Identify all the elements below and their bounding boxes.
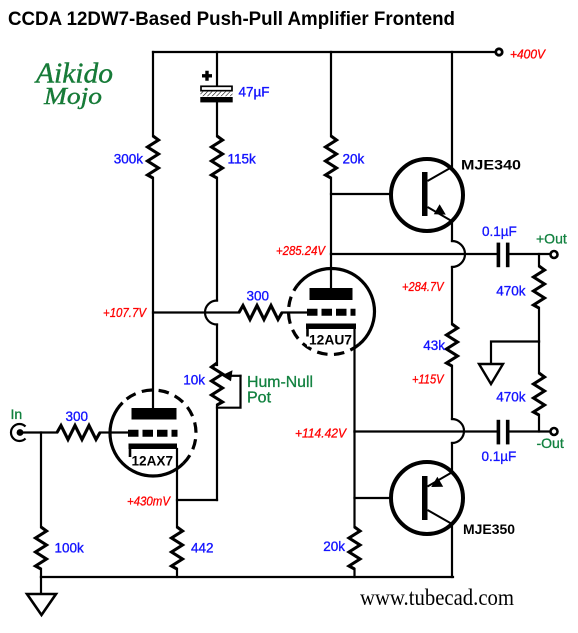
svg-text:10k: 10k bbox=[183, 373, 205, 388]
label +114.42V bbox=[295, 426, 347, 441]
ground symbol bottom left bbox=[27, 577, 56, 615]
label 300k bbox=[114, 152, 144, 167]
svg-text:+400V: +400V bbox=[510, 47, 546, 62]
wire wiper loop to pot bottom bbox=[217, 376, 241, 408]
label 115k bbox=[228, 152, 257, 167]
svg-text:+284.7V: +284.7V bbox=[402, 279, 445, 294]
label 300 bbox=[247, 289, 270, 304]
wire cap to -Out bbox=[510, 430, 551, 432]
svg-text:Pot: Pot bbox=[247, 390, 272, 407]
tube 12AU7 bbox=[289, 269, 375, 355]
svg-text:-Out: -Out bbox=[537, 435, 564, 451]
wire grid resistor to 12AU7 grid bbox=[282, 311, 307, 313]
wire 43k down to hop bbox=[451, 366, 453, 419]
resistor R 470k upper bbox=[534, 266, 545, 308]
svg-text:20k: 20k bbox=[343, 152, 365, 167]
wire +430mV node bbox=[177, 499, 217, 501]
wire 470k upper to ground node bbox=[538, 308, 540, 342]
wire pot to cathode node bbox=[216, 405, 218, 500]
svg-text:Hum-Null: Hum-Null bbox=[247, 374, 313, 391]
Aikido Mojo logo text bbox=[34, 59, 113, 111]
wire node +285.24V to coupling cap bbox=[331, 253, 497, 255]
svg-text:+Out: +Out bbox=[536, 231, 567, 247]
wire 12AX7 grid lead bbox=[111, 431, 129, 433]
svg-text:0.1µF: 0.1µF bbox=[482, 449, 517, 464]
label Hum-Null Pot bbox=[247, 374, 313, 407]
wire In to grid resistor bbox=[22, 431, 57, 433]
resistor R 43k bbox=[447, 324, 458, 366]
svg-text:www.tubecad.com: www.tubecad.com bbox=[360, 585, 514, 610]
svg-text:442: 442 bbox=[191, 541, 214, 556]
wire node +107.7V to grid resistor bbox=[153, 311, 239, 313]
label www.tubecad.com bbox=[360, 585, 514, 610]
svg-text:+115V: +115V bbox=[412, 372, 445, 387]
wire 12AU7 plate lead bbox=[330, 254, 332, 288]
label +107.7V bbox=[103, 305, 147, 320]
svg-text:115k: 115k bbox=[228, 152, 257, 167]
wire In drop to 100k bbox=[40, 433, 42, 528]
svg-text:CCDA 12DW7-Based Push-Pull Amp: CCDA 12DW7-Based Push-Pull Amplifier Fro… bbox=[8, 8, 455, 30]
potentiometer R 10k bbox=[212, 363, 223, 405]
capacitor C 47uF polarized bbox=[200, 71, 232, 103]
resistor R 20k upper bbox=[326, 136, 337, 178]
svg-text:470k: 470k bbox=[496, 390, 526, 405]
capacitor C 0.1uF upper bbox=[497, 243, 510, 268]
wire 12AX7 cathode lead bbox=[176, 449, 178, 527]
terminal In jack bbox=[11, 424, 26, 441]
label +115V bbox=[412, 372, 445, 387]
svg-text:300: 300 bbox=[66, 409, 89, 424]
wire rail to 47uF bbox=[216, 52, 218, 85]
wire 470k lower to -Out node bbox=[538, 415, 540, 432]
label 0.1uF lower bbox=[482, 449, 517, 464]
wire ground node to 470k lower bbox=[538, 342, 540, 374]
label 47uF bbox=[239, 85, 270, 100]
svg-text:20k: 20k bbox=[323, 539, 345, 554]
svg-text:300k: 300k bbox=[114, 152, 144, 167]
wire 115k down to hop bbox=[216, 178, 218, 301]
resistor R 20k lower bbox=[349, 527, 360, 569]
resistor R 300 (input) bbox=[57, 426, 100, 440]
wire hop over +107.7V line bbox=[205, 301, 217, 325]
wire 20k lower to rail bbox=[353, 569, 355, 577]
wire MJE340 emitter down bbox=[451, 221, 453, 241]
terminal +Out bbox=[551, 251, 558, 258]
svg-text:+107.7V: +107.7V bbox=[103, 305, 147, 320]
svg-text:300: 300 bbox=[247, 289, 270, 304]
svg-text:MJE340: MJE340 bbox=[461, 158, 521, 173]
wire 300k to 12AX7 plate bbox=[152, 178, 154, 408]
label 43k bbox=[423, 338, 445, 353]
wire rail to 20k upper bbox=[330, 52, 332, 136]
wire top B+ rail bbox=[153, 51, 495, 53]
label 442 bbox=[191, 541, 214, 556]
wire hop to 43k bbox=[451, 267, 453, 324]
transistor Q MJE350 PNP bbox=[391, 462, 463, 534]
label +285.24V bbox=[276, 243, 326, 258]
wire 300 to tube grid bbox=[100, 431, 111, 433]
label 10k bbox=[183, 373, 205, 388]
label 300 input bbox=[66, 409, 89, 424]
label 100k bbox=[55, 541, 85, 556]
terminal +400V bbox=[496, 49, 502, 55]
wire 20k to plate node bbox=[330, 178, 332, 254]
wire hop over +Out line bbox=[452, 241, 465, 267]
label 470k upper bbox=[496, 284, 526, 299]
svg-text:0.1µF: 0.1µF bbox=[482, 224, 517, 239]
ground symbol right bbox=[479, 364, 503, 384]
label +284.7V bbox=[402, 279, 445, 294]
wire cathode node down to MJE350 base node bbox=[353, 432, 355, 528]
wire 12AU7 cathode lead bbox=[353, 329, 355, 432]
svg-text:470k: 470k bbox=[496, 284, 526, 299]
wire cap to +Out bbox=[510, 253, 551, 255]
resistor R 100k bbox=[36, 527, 47, 569]
pot wiper arrow bbox=[222, 370, 241, 381]
wire 47uF to 115k bbox=[216, 103, 218, 137]
svg-text:+430mV: +430mV bbox=[127, 494, 171, 509]
terminal -Out bbox=[551, 428, 558, 435]
resistor R 115k bbox=[212, 136, 223, 178]
label 20k upper bbox=[343, 152, 365, 167]
wire hop over -Out line bbox=[452, 419, 464, 443]
svg-text:Mojo: Mojo bbox=[43, 84, 102, 110]
wire 100k to rail bbox=[40, 569, 42, 577]
wire ground branch bbox=[491, 342, 539, 365]
svg-text:43k: 43k bbox=[423, 338, 445, 353]
label 470k lower bbox=[496, 390, 526, 405]
resistor R 442 bbox=[172, 527, 183, 569]
wire hop to MJE350 emitter bbox=[451, 443, 453, 473]
transistor Q MJE340 NPN bbox=[391, 159, 463, 231]
wire hop to pot bbox=[216, 325, 218, 366]
svg-text:+114.42V: +114.42V bbox=[295, 426, 347, 441]
label +Out bbox=[536, 231, 567, 247]
svg-text:100k: 100k bbox=[55, 541, 85, 556]
tube 12AX7 bbox=[110, 390, 196, 476]
wire rail to 300k bbox=[152, 52, 154, 136]
title bbox=[8, 8, 455, 30]
wire 442 to rail bbox=[176, 569, 178, 577]
label 0.1uF upper bbox=[482, 224, 517, 239]
svg-text:In: In bbox=[11, 406, 23, 422]
wire MJE350 base bbox=[355, 497, 423, 499]
label -Out bbox=[537, 435, 564, 451]
label +430mV bbox=[127, 494, 171, 509]
label 20k lower bbox=[323, 539, 345, 554]
wire node +114.42V to coupling cap bbox=[355, 430, 497, 432]
svg-text:12AU7: 12AU7 bbox=[309, 333, 352, 348]
wire MJE340 collector to rail bbox=[451, 52, 453, 168]
svg-text:MJE350: MJE350 bbox=[463, 522, 515, 537]
svg-text:+285.24V: +285.24V bbox=[276, 243, 326, 258]
resistor R 300k bbox=[148, 136, 159, 178]
resistor R 300 (12AU7 grid stopper) bbox=[239, 306, 282, 320]
wire bottom ground rail bbox=[41, 576, 453, 578]
label +400V bbox=[510, 47, 546, 62]
label MJE340 bbox=[461, 158, 521, 173]
svg-text:12AX7: 12AX7 bbox=[132, 454, 174, 469]
wire MJE350 collector to rail bbox=[451, 524, 453, 577]
wire +Out node to 470k upper bbox=[538, 254, 540, 266]
label MJE350 bbox=[463, 522, 515, 537]
capacitor C 0.1uF lower bbox=[497, 420, 510, 445]
label In bbox=[11, 406, 23, 422]
svg-text:47µF: 47µF bbox=[239, 85, 270, 100]
wire MJE340 base bbox=[331, 193, 422, 195]
resistor R 470k lower bbox=[534, 373, 545, 415]
